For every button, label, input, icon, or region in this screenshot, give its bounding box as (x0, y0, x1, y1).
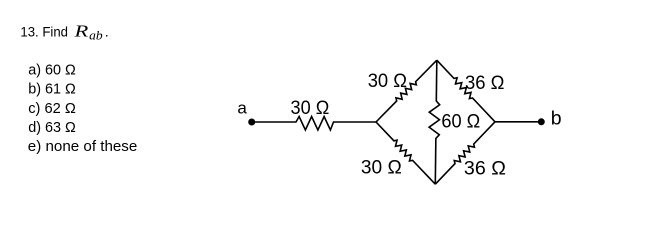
svg-text:60 Ω: 60 Ω (441, 110, 480, 132)
resistor 30 ohm bottom-left bridge arm (361, 122, 435, 184)
svg-text:ab: ab (89, 27, 103, 42)
resistor 60 ohm middle bridge branch (429, 60, 480, 184)
svg-text:b: b (551, 108, 562, 130)
svg-text:30 Ω: 30 Ω (291, 97, 330, 119)
svg-text:e) none of these: e) none of these (28, 139, 138, 155)
node a terminal dot (248, 119, 255, 126)
svg-text:30 Ω: 30 Ω (361, 157, 402, 179)
svg-text:.: . (105, 25, 109, 41)
svg-text:R: R (73, 22, 89, 41)
svg-text:36 Ω: 36 Ω (464, 158, 506, 180)
wire right bridge node to node b (495, 121, 541, 123)
svg-text:a) 60 Ω: a) 60 Ω (28, 62, 76, 78)
svg-text:a: a (237, 99, 247, 118)
resistor 30 ohm top-left bridge arm (368, 60, 437, 122)
svg-text:b) 61 Ω: b) 61 Ω (28, 82, 76, 98)
resistor 36 ohm bottom-right bridge arm (435, 122, 506, 184)
resistor 36 ohm top-right bridge arm (437, 60, 505, 122)
svg-text:c) 62 Ω: c) 62 Ω (28, 101, 76, 117)
title: 13. Find Rab. (20, 22, 108, 43)
svg-text:13. Find: 13. Find (20, 25, 68, 41)
svg-text:36 Ω: 36 Ω (465, 72, 505, 94)
svg-text:d) 63 Ω: d) 63 Ω (28, 120, 76, 136)
resistor 30 ohm series (with wires from node a to left bridge node) (252, 97, 376, 130)
svg-text:30 Ω: 30 Ω (368, 70, 407, 92)
node b terminal dot (538, 118, 545, 125)
